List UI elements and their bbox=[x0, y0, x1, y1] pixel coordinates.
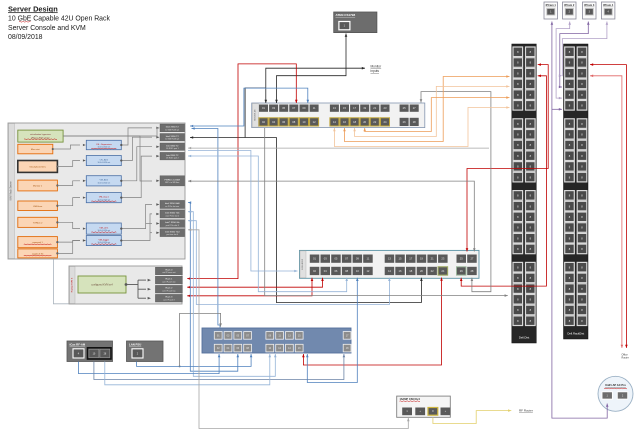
wire NAS to RF router (yellow) bbox=[433, 411, 511, 424]
peripheral box powered 1 bbox=[18, 237, 58, 248]
svg-text:Dell.RackDist: Dell.RackDist bbox=[567, 332, 584, 336]
svg-text:IPCam 3: IPCam 3 bbox=[584, 3, 595, 7]
console label Rack 2 bbox=[155, 285, 182, 293]
svg-text:Rack 2: Rack 2 bbox=[165, 288, 173, 290]
svg-text:16: 16 bbox=[399, 269, 402, 273]
svg-text:16: 16 bbox=[343, 120, 346, 124]
svg-text:02: 02 bbox=[313, 269, 316, 273]
wire NIC label7 to SW2 port (light blue corridor 2) bbox=[188, 212, 275, 377]
svg-text:PWRDC 10GbE: PWRDC 10GbE bbox=[164, 179, 180, 181]
svg-text:14: 14 bbox=[388, 269, 391, 273]
wire rack tower1 to patch top port (red) bbox=[467, 65, 548, 252]
svg-text:27: 27 bbox=[470, 257, 473, 261]
panel internal wiring bbox=[63, 128, 159, 136]
svg-text:24: 24 bbox=[441, 269, 444, 273]
switch SW1 ports row 1 bbox=[259, 105, 268, 112]
VM box VM_logger bbox=[86, 236, 121, 246]
svg-text:17: 17 bbox=[409, 257, 412, 261]
svg-text:19: 19 bbox=[363, 106, 366, 110]
VM box OS_AV2 bbox=[86, 156, 121, 166]
svg-text:Intel X550 T2: Intel X550 T2 bbox=[166, 126, 180, 129]
svg-text:1GB 48 R2: 1GB 48 R2 bbox=[302, 258, 304, 270]
svg-text:21: 21 bbox=[431, 257, 434, 261]
IP camera IPCam 3 bbox=[583, 2, 597, 19]
wire rack2 port to cam2 (lavender) bbox=[556, 22, 570, 99]
svg-text:configured KVM xx4: configured KVM xx4 bbox=[91, 284, 113, 287]
svg-text:10.0.0.0/24 net: 10.0.0.0/24 net bbox=[97, 161, 110, 164]
svg-text:IPCam 4: IPCam 4 bbox=[603, 3, 614, 7]
svg-text:over IP port one: over IP port one bbox=[162, 280, 175, 283]
svg-text:Intel* X550 Gb: Intel* X550 Gb bbox=[165, 221, 180, 224]
NIC label PWRDC 10GbE bbox=[160, 176, 185, 186]
svg-text:19: 19 bbox=[420, 257, 423, 261]
svg-text:22: 22 bbox=[431, 269, 434, 273]
svg-text:KVM Rack Server: KVM Rack Server bbox=[10, 181, 13, 200]
VM box VM_strm bbox=[86, 223, 121, 234]
svg-text:1G RJ45 port 1: 1G RJ45 port 1 bbox=[166, 147, 179, 150]
wire rack2 lower port branch (purple) bbox=[552, 108, 562, 110]
rack tower 1 Dell RackDist bbox=[512, 44, 537, 343]
peripheral box USB kvm bbox=[18, 201, 58, 211]
VM box VM_mac1 bbox=[86, 193, 121, 203]
switch SW1 48-port bbox=[252, 103, 425, 128]
svg-text:23: 23 bbox=[441, 257, 444, 261]
wire rack tower2 to office router 2 (pink) bbox=[590, 76, 622, 348]
svg-text:Server Design: Server Design bbox=[8, 4, 58, 13]
wire rack2 port to cam3 (purple) bbox=[560, 22, 589, 88]
wire NIC label3b to patch left edge (light blue) bbox=[188, 151, 298, 272]
wire panel NIC2 to patch panel port 44 (black) bbox=[190, 138, 421, 303]
arrow into Intel X550 T2b bbox=[156, 213, 159, 216]
svg-text:17: 17 bbox=[353, 106, 356, 110]
NIC label Intel X550 GbE bbox=[160, 200, 185, 208]
AP ports bbox=[602, 392, 612, 399]
svg-text:02: 02 bbox=[262, 120, 265, 124]
svg-text:25: 25 bbox=[460, 257, 463, 261]
NIC label Intel I350 T2 bbox=[160, 152, 185, 160]
console label Rack 0 bbox=[155, 267, 182, 275]
svg-text:Mac mini: Mac mini bbox=[31, 149, 40, 151]
svg-text:08: 08 bbox=[292, 120, 295, 124]
svg-text:03: 03 bbox=[272, 106, 275, 110]
wire NIC label6 to SW2 port (blue corridor 1) bbox=[188, 203, 238, 372]
svg-text:Smartphone/Dev: Smartphone/Dev bbox=[29, 165, 46, 168]
VM box OS - Supervisor bbox=[86, 140, 121, 149]
peripheral box Monitor 1 bbox=[18, 180, 58, 191]
rack tower 2 Dell RackDist2 bbox=[564, 44, 589, 339]
svg-text:04: 04 bbox=[324, 269, 327, 273]
svg-text:Intel X550 T2: Intel X550 T2 bbox=[166, 135, 180, 138]
svg-text:01: 01 bbox=[262, 106, 265, 110]
svg-text:VMware ESXi cluster: VMware ESXi cluster bbox=[31, 137, 50, 140]
svg-text:26: 26 bbox=[403, 120, 406, 124]
svg-text:virtualization hypervisor: virtualization hypervisor bbox=[30, 133, 51, 136]
switch SW2 blue 16-port bbox=[202, 328, 351, 353]
svg-text:Intel X550 T2b: Intel X550 T2b bbox=[165, 212, 180, 215]
arrow into Intel X550 T2 bbox=[156, 136, 159, 139]
svg-text:08/09/2018: 08/09/2018 bbox=[8, 34, 43, 41]
console green box bbox=[78, 276, 126, 293]
svg-text:powered 1: powered 1 bbox=[32, 241, 43, 244]
svg-text:28: 28 bbox=[413, 120, 416, 124]
svg-text:IPCam 1: IPCam 1 bbox=[546, 3, 557, 7]
peripheral box TV/Mon 2 bbox=[18, 217, 58, 227]
svg-text:Intel I350 T2: Intel I350 T2 bbox=[166, 154, 179, 157]
NAS ports bbox=[402, 408, 412, 416]
svg-text:18: 18 bbox=[409, 269, 412, 273]
svg-text:07: 07 bbox=[292, 106, 295, 110]
svg-text:over IP port 3: over IP port 3 bbox=[163, 298, 174, 301]
svg-text:03: 03 bbox=[324, 257, 327, 261]
wire SW1 top right port to patch port 48 (gray) bbox=[421, 92, 491, 292]
svg-text:VM_strm: VM_strm bbox=[99, 226, 108, 229]
wire NIC label8 to patch port 40 (light blue) bbox=[188, 221, 389, 305]
NIC label Intel* X550 Gb bbox=[160, 220, 185, 228]
svg-text:09: 09 bbox=[356, 257, 359, 261]
svg-text:21: 21 bbox=[373, 106, 376, 110]
svg-text:23: 23 bbox=[384, 106, 387, 110]
svg-text:VM_logger: VM_logger bbox=[99, 238, 110, 241]
access point UniFi AP AC Pro bbox=[598, 376, 633, 411]
svg-text:15: 15 bbox=[343, 106, 346, 110]
svg-text:13: 13 bbox=[388, 257, 391, 261]
svg-text:05: 05 bbox=[282, 106, 285, 110]
wire panel NIC1 to SW2 top port (blue) bbox=[192, 129, 221, 328]
arrow into Intel X550 GbE bbox=[156, 203, 159, 206]
console label Rack 3 bbox=[155, 294, 182, 302]
device box iCas RF-AM bbox=[67, 341, 113, 362]
svg-text:24: 24 bbox=[384, 120, 387, 124]
svg-text:10: 10 bbox=[303, 120, 306, 124]
switch SW1 ports row 2 (PoE yellow) bbox=[259, 118, 268, 126]
peripheral box Smartphone/Dev bbox=[18, 161, 58, 173]
console label Rack 1 bbox=[155, 276, 182, 284]
svg-text:USB kvm: USB kvm bbox=[33, 206, 42, 208]
switch SW2 ports bbox=[214, 332, 222, 340]
svg-text:over IP port two: over IP port two bbox=[162, 289, 175, 292]
svg-text:Rack 3: Rack 3 bbox=[165, 297, 173, 299]
svg-text:RF Router: RF Router bbox=[519, 409, 533, 413]
wire NIC label3 long gray bus bbox=[188, 147, 489, 149]
svg-text:11: 11 bbox=[367, 257, 370, 261]
svg-text:Monitor 1: Monitor 1 bbox=[33, 185, 43, 188]
wire rack0 label to SW1 port 7 (red) bbox=[187, 64, 296, 279]
svg-text:14: 14 bbox=[333, 120, 336, 124]
svg-text:Logitech K4: Logitech K4 bbox=[32, 252, 44, 255]
svg-text:25: 25 bbox=[403, 106, 406, 110]
svg-text:port two slot 4: port two slot 4 bbox=[166, 233, 178, 236]
svg-text:07: 07 bbox=[345, 257, 348, 261]
svg-text:28: 28 bbox=[470, 269, 473, 273]
svg-text:over PCIe slot 2: over PCIe slot 2 bbox=[166, 214, 179, 217]
svg-text:ATEN CS1798: ATEN CS1798 bbox=[336, 13, 356, 17]
arrow into Intel I350 T2 bbox=[156, 145, 159, 148]
svg-text:20: 20 bbox=[420, 269, 423, 273]
svg-text:10 GbE RJ45 p2: 10 GbE RJ45 p2 bbox=[165, 139, 179, 141]
wire NIC label to NAS port1 (gray) bbox=[188, 230, 408, 429]
svg-text:Intel X550 T2d: Intel X550 T2d bbox=[165, 230, 180, 233]
svg-text:OS - Supervisor: OS - Supervisor bbox=[96, 143, 112, 146]
svg-text:08: 08 bbox=[345, 269, 348, 273]
IP camera IPCam 1 bbox=[544, 2, 558, 19]
wire box1 port10 to SW2 right port (steel) bbox=[94, 354, 344, 380]
wire rack1 label to patch port 14 (red) bbox=[187, 278, 322, 287]
svg-text:VM_AV2: VM_AV2 bbox=[100, 179, 109, 182]
svg-text:Server Console and KVM: Server Console and KVM bbox=[8, 25, 86, 32]
hypervisor green box bbox=[18, 130, 63, 142]
svg-text:Intel I350 T2: Intel I350 T2 bbox=[166, 144, 179, 147]
svg-text:15: 15 bbox=[399, 257, 402, 261]
svg-text:LAN PSU: LAN PSU bbox=[129, 342, 141, 346]
svg-text:Intel X550 GbE: Intel X550 GbE bbox=[165, 202, 180, 205]
svg-text:Monitor: Monitor bbox=[371, 65, 383, 69]
console server panel frame bbox=[69, 266, 182, 304]
arrow into Intel I350 T2 bbox=[156, 155, 159, 158]
svg-text:22: 22 bbox=[373, 120, 376, 124]
NIC label Intel X550 T2d bbox=[160, 229, 185, 237]
svg-text:06: 06 bbox=[282, 120, 285, 124]
svg-text:12: 12 bbox=[313, 120, 316, 124]
svg-text:27: 27 bbox=[413, 106, 416, 110]
svg-text:VM_mac1: VM_mac1 bbox=[99, 196, 110, 198]
svg-text:06: 06 bbox=[334, 269, 337, 273]
wire rack tower2 to office router (red) bbox=[590, 65, 626, 348]
IP camera IPCam 2 bbox=[563, 2, 577, 19]
svg-text:out IP base unit: out IP base unit bbox=[162, 271, 176, 274]
NIC label Intel X550 T2 bbox=[160, 124, 185, 132]
patch panel PP1 bbox=[300, 250, 480, 278]
wire patch port 42 to SW2 (red) bbox=[303, 278, 441, 366]
svg-text:UniFi AP AC Pro: UniFi AP AC Pro bbox=[605, 383, 626, 387]
arrow into Intel X550 T2 bbox=[156, 127, 159, 129]
NAS box 16AMP CISCO 4 bbox=[397, 396, 451, 417]
svg-text:05: 05 bbox=[334, 257, 337, 261]
wire NIC label4 to patch port 32 (light blue) bbox=[188, 156, 347, 292]
patch panel ports row 1 bbox=[310, 255, 320, 263]
KVM console port 1 bbox=[339, 22, 350, 30]
svg-text:OS_AV2: OS_AV2 bbox=[100, 158, 109, 161]
svg-text:04: 04 bbox=[272, 120, 275, 124]
svg-text:20: 20 bbox=[363, 120, 366, 124]
VM box VM_AV2 bbox=[86, 176, 121, 186]
NIC label Intel X550 T2 bbox=[160, 134, 185, 141]
svg-text:Dell.Dist: Dell.Dist bbox=[519, 336, 530, 340]
svg-text:Rack 0: Rack 0 bbox=[165, 269, 173, 271]
svg-text:Router: Router bbox=[622, 357, 629, 360]
wire rack2 label to patch port 12 (red) bbox=[187, 278, 312, 296]
wire patch 34 to SW2 (blue) bbox=[307, 278, 357, 383]
wire SW1 port1 to rack tower1 (gray) bbox=[265, 128, 508, 296]
svg-text:01: 01 bbox=[313, 257, 316, 261]
wire rack tower1 to patch bottom port (red) bbox=[461, 76, 546, 286]
arrow into Intel X550 T2d bbox=[156, 231, 159, 234]
left panel rack server frame bbox=[8, 123, 185, 259]
wire box1 port4 to SW2 port1 (blue) bbox=[79, 354, 220, 374]
svg-text:10: 10 bbox=[356, 269, 359, 273]
peripheral box Logitech K4 bbox=[18, 249, 58, 258]
svg-text:Rack 1: Rack 1 bbox=[165, 279, 173, 281]
arrow into PWRDC 10GbE bbox=[156, 180, 159, 183]
IP camera IPCam 4 bbox=[601, 2, 615, 19]
svg-text:26: 26 bbox=[460, 269, 463, 273]
svg-text:16AMP CISCOv4: 16AMP CISCOv4 bbox=[400, 397, 421, 401]
wire PWRDC label to patch top port (gray) bbox=[188, 181, 474, 251]
KVM console switch ATEN CS1798 bbox=[334, 12, 377, 33]
LAN PSU port 2 bbox=[132, 349, 143, 358]
NIC label Intel I350 T2 bbox=[160, 143, 185, 150]
svg-text:SFP+ to SR fiber: SFP+ to SR fiber bbox=[165, 181, 180, 184]
svg-text:10.0.0.0/24 net: 10.0.0.0/24 net bbox=[97, 181, 110, 184]
svg-text:Raritan KVM S: Raritan KVM S bbox=[70, 277, 73, 292]
svg-text:1G RJ45 port 2: 1G RJ45 port 2 bbox=[166, 157, 179, 160]
wire gray branch to SW2 top port bbox=[180, 313, 221, 366]
svg-text:13: 13 bbox=[333, 106, 336, 110]
peripheral box Mac mini bbox=[18, 144, 53, 154]
svg-text:iCas RF-AM: iCas RF-AM bbox=[70, 342, 86, 346]
svg-text:part PCIe slot 3: part PCIe slot 3 bbox=[166, 224, 179, 227]
svg-text:inputs: inputs bbox=[371, 69, 380, 73]
wire box1 port28 to SW2 (light blue) bbox=[105, 354, 270, 385]
svg-text:09: 09 bbox=[303, 106, 306, 110]
arrow into Intel* X550 Gb bbox=[156, 222, 159, 225]
svg-text:IPCam 2: IPCam 2 bbox=[564, 3, 575, 7]
svg-text:SG500X-48: SG500X-48 bbox=[254, 109, 256, 121]
wires SW1 PoE ports to rack tower 1 (orange) bbox=[334, 108, 509, 147]
svg-text:18: 18 bbox=[353, 120, 356, 124]
wire rack2 port to cam4 (lavender) bbox=[562, 22, 607, 76]
svg-text:on PCIe slot one: on PCIe slot one bbox=[165, 205, 179, 208]
NIC label Intel X550 T2b bbox=[160, 210, 185, 218]
svg-text:TV/Mon 2: TV/Mon 2 bbox=[33, 222, 43, 224]
iCas port 4 bbox=[73, 349, 84, 358]
wire panel NIC1b to SW1 port 9 (blue) bbox=[190, 88, 308, 126]
device box LAN PSU bbox=[127, 341, 164, 362]
patch panel ports row 2 bbox=[310, 267, 320, 275]
wire monitor inputs from SW1 port 3 bbox=[266, 68, 365, 103]
wire SW1 port 5 to KVM console bbox=[277, 34, 347, 104]
wire panel bottom to console panel (light gray) bbox=[53, 260, 68, 304]
wire black elbow to SW1 bbox=[245, 88, 266, 138]
wire cam1 to AP circle (purple) bbox=[552, 22, 607, 419]
wire box2 port2 to SW2 (blue) bbox=[137, 354, 252, 366]
svg-text:12: 12 bbox=[366, 269, 369, 273]
console fanout wires bbox=[126, 284, 138, 286]
svg-text:10 GbE RJ45 p1: 10 GbE RJ45 p1 bbox=[165, 129, 179, 131]
iCas ports 10/28 pair bbox=[88, 348, 112, 359]
